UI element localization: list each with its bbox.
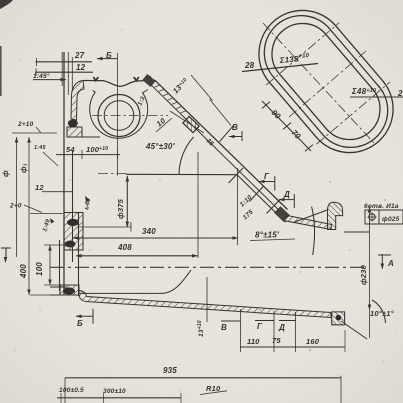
main horizontal centerline	[50, 266, 366, 268]
section plane line V	[210, 99, 232, 126]
vertical dim line x50	[49, 245, 51, 285]
extension line x68	[67, 52, 69, 95]
top wall inner line with dome	[90, 90, 148, 139]
bell curve	[162, 270, 191, 293]
extension from vertex down	[237, 168, 239, 245]
flange bottom line 295	[50, 294, 79, 296]
scan grain overlay	[0, 0, 1, 1]
wall bead joint 2	[275, 207, 289, 221]
weld V mark 1	[93, 77, 99, 81]
circle horizontal centerline	[92, 115, 168, 117]
extension y245	[44, 244, 64, 246]
45deg reference dashes	[98, 173, 128, 175]
weld nut at slope start	[143, 75, 155, 87]
circle vertical centerline	[117, 53, 119, 176]
sloped wall hatching	[146, 76, 187, 112]
outlet 10deg extension	[341, 321, 367, 339]
10deg arc leader	[372, 300, 386, 323]
obround cross centerline through upper lobe	[266, 23, 339, 85]
dimension tick	[262, 102, 270, 109]
leader to table	[344, 231, 369, 233]
flange right vertical	[78, 213, 80, 296]
edge vignette	[0, 0, 1, 1]
branch hole outer circle	[98, 95, 140, 137]
extension line x207	[206, 277, 208, 322]
flange top cap section	[71, 81, 84, 121]
obround cross centerline through lower lobe	[317, 82, 391, 144]
bolt blob bottom	[63, 287, 75, 294]
section mark D arrow	[279, 199, 294, 201]
position symbol cross	[368, 216, 377, 218]
bottom flange bolt dot	[336, 315, 342, 321]
outlet top flange bar	[328, 202, 343, 229]
cap bottom line	[67, 136, 100, 138]
outlet bottom flange	[332, 312, 345, 325]
sloped wall outer line	[155, 80, 288, 209]
hole outline middle contour	[264, 16, 387, 148]
leader 8deg	[250, 239, 295, 241]
flange outer-left vertical	[59, 240, 61, 291]
scan edge left sliver	[0, 46, 2, 96]
extension line x72	[71, 57, 73, 92]
outlet top wall strip	[284, 216, 332, 230]
weld V mark 2	[134, 77, 140, 81]
position symbol circle	[369, 214, 375, 220]
flange main vertical wall	[63, 52, 65, 295]
8deg angle arc	[312, 207, 315, 255]
bottom wall strip	[79, 291, 331, 318]
weld blob on cap	[68, 120, 78, 128]
hatched block under cap	[67, 127, 82, 137]
dimension tick	[283, 123, 291, 130]
outlet gusset line	[293, 210, 328, 223]
dimension tick	[305, 145, 313, 152]
extension line x198	[197, 152, 199, 258]
extension y295	[30, 294, 60, 296]
leader line 28	[242, 64, 318, 72]
vertical dim line x16	[16, 137, 18, 257]
branch hole inner circle	[104, 101, 134, 131]
table box	[365, 210, 403, 224]
section mark B top arrow	[97, 58, 117, 60]
section mark V arrow	[229, 136, 242, 138]
dim line phi230	[369, 206, 371, 338]
flange bottom block	[60, 285, 79, 295]
cut line D	[267, 199, 281, 214]
extension line x62	[61, 52, 63, 86]
section mark G arrow	[259, 181, 275, 183]
bottom dim line	[57, 397, 181, 399]
body inner bottom line	[79, 292, 162, 294]
extension y213	[30, 212, 63, 214]
hole outline outer contour	[259, 10, 393, 152]
obround long-axis centerline	[263, 23, 374, 143]
vertical dim line x29	[28, 137, 30, 295]
extension y133	[12, 132, 57, 134]
top wall outer line	[83, 80, 155, 86]
bolt blob 1	[67, 219, 79, 226]
scan edge mark top-left	[0, 0, 13, 9]
section mark A arrow	[378, 254, 391, 256]
extension y285	[44, 284, 64, 286]
cut line G	[250, 186, 264, 202]
vertex tick	[229, 168, 244, 183]
flange hatched block mid	[64, 213, 83, 251]
sloped wall lower inner segment	[237, 175, 286, 223]
sloped wall inner line	[151, 85, 283, 214]
dimension line 90 70	[262, 101, 311, 151]
wall bead joint 1	[183, 116, 199, 132]
table divider	[378, 210, 380, 224]
wall thickness dim line a	[191, 75, 213, 101]
dimension phi375	[126, 176, 128, 227]
small mark left edge	[1, 247, 11, 249]
45deg reference line	[126, 173, 237, 175]
hole outline inner contour	[272, 23, 380, 139]
45deg angle arc	[179, 137, 194, 175]
bolt blob 2	[65, 241, 76, 248]
wall thickness dim line b	[170, 111, 204, 133]
flange bottom line 287	[50, 286, 66, 288]
obround cross centerline through center	[289, 51, 366, 117]
extension line y227	[77, 226, 131, 228]
flange inner vertical	[72, 150, 74, 262]
leader line sigma48	[350, 96, 403, 98]
cut line V (B section)	[220, 126, 234, 142]
